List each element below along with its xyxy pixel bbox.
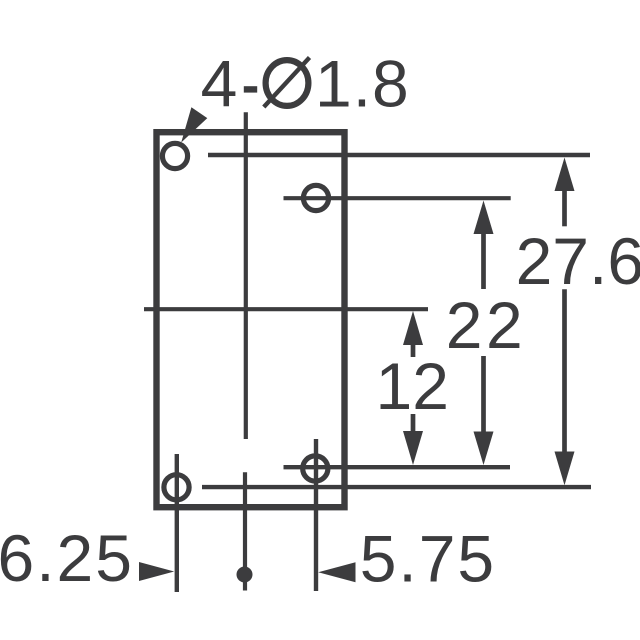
leader arrow from 4-Ø1.8 label to top-left hole <box>181 107 207 142</box>
dimension line y=487 (27.6 bottom) <box>202 485 591 489</box>
dim 27.6 up arrowhead <box>555 158 575 192</box>
dimension line y=198 (22 top) <box>284 196 511 200</box>
hole bottom-right <box>303 456 328 481</box>
svg-text:5.75: 5.75 <box>360 522 496 596</box>
center dot <box>237 567 253 583</box>
dim 12 vertical line upper shaft <box>411 343 416 357</box>
dim 27.6 vertical line lower shaft <box>562 289 567 453</box>
dimension line y=155 (27.6 top) <box>208 153 590 157</box>
svg-text:4: 4 <box>201 47 238 121</box>
dim 27.6 down arrowhead <box>555 452 575 486</box>
svg-text:6.25: 6.25 <box>0 521 134 595</box>
dimension line y=467 (12/22 bottom) <box>284 465 511 469</box>
dim 12 down arrowhead <box>403 431 423 465</box>
extension line right (x=316) <box>314 439 318 591</box>
bracket outline rectangle <box>157 132 345 507</box>
vertical centerline (upper segment) <box>244 112 248 439</box>
dim 12 vertical line lower shaft <box>411 414 416 433</box>
horizontal centerline <box>144 307 428 311</box>
dim 22 vertical line lower shaft <box>481 356 486 433</box>
hole top-right <box>303 185 328 210</box>
dim 5.75 arrowhead (points left at right extension line) <box>318 562 355 582</box>
svg-text:1.8: 1.8 <box>315 47 410 121</box>
dim 6.25 arrowhead (points right at left extension line) <box>139 562 174 581</box>
label 4-Ø1.8 : diameter symbol ring <box>266 60 309 106</box>
svg-text:27.6: 27.6 <box>516 224 640 298</box>
dim 27.6 vertical line upper shaft <box>562 189 567 226</box>
extension line left (x=176.4) <box>175 454 179 592</box>
label 4-Ø1.8 : diameter symbol slash <box>264 58 310 108</box>
dim 22 vertical line upper shaft <box>481 232 486 289</box>
svg-text:12: 12 <box>376 349 449 423</box>
dim 22 up arrowhead <box>474 201 494 235</box>
svg-text:22: 22 <box>446 288 526 362</box>
vertical centerline (lower segment) <box>243 472 247 590</box>
hole top-left <box>162 143 187 168</box>
label 4-Ø1.8 : hyphen <box>244 86 257 92</box>
hole bottom-left <box>164 475 189 500</box>
dim 22 down arrowhead <box>474 432 494 466</box>
dim 12 up arrowhead <box>403 311 423 345</box>
